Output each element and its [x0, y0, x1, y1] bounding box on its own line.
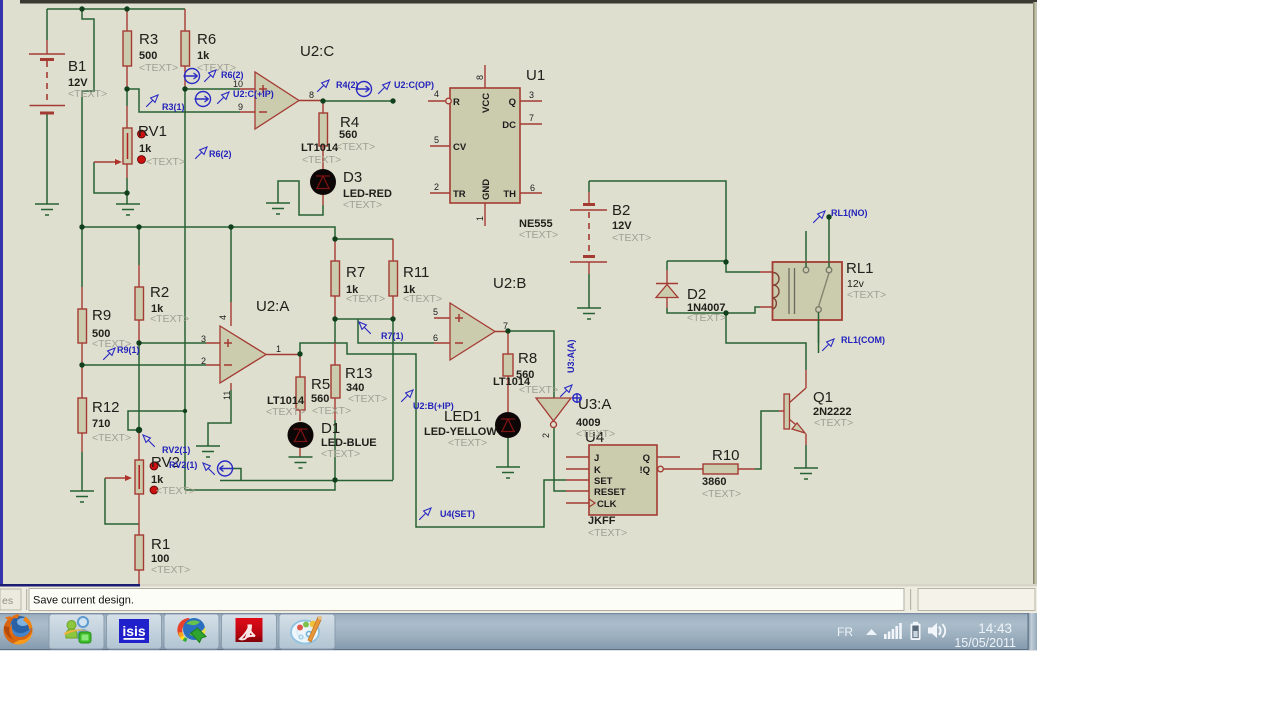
svg-text:15/05/2011: 15/05/2011 [954, 636, 1016, 650]
svg-text:R2: R2 [150, 284, 169, 301]
svg-text:U2:C(OP): U2:C(OP) [394, 80, 434, 90]
svg-text:R1: R1 [151, 536, 170, 553]
svg-text:RV1: RV1 [138, 123, 167, 140]
svg-text:SET: SET [594, 476, 613, 487]
svg-text:<TEXT>: <TEXT> [266, 406, 305, 418]
svg-text:Q1: Q1 [813, 389, 833, 406]
svg-text:<TEXT>: <TEXT> [92, 432, 131, 444]
svg-text:R5: R5 [311, 376, 330, 393]
svg-text:560: 560 [339, 129, 357, 141]
svg-text:D3: D3 [343, 169, 362, 186]
svg-text:isis: isis [122, 623, 146, 639]
svg-text:TR: TR [453, 189, 466, 200]
svg-text:2: 2 [434, 182, 439, 192]
svg-text:<TEXT>: <TEXT> [576, 428, 615, 440]
svg-text:1k: 1k [139, 143, 152, 155]
svg-text:U2:B: U2:B [493, 275, 526, 292]
svg-text:<TEXT>: <TEXT> [348, 393, 387, 405]
svg-text:Q: Q [643, 453, 650, 464]
svg-text:TH: TH [503, 189, 516, 200]
svg-text:12V: 12V [612, 220, 632, 232]
svg-text:10: 10 [233, 79, 243, 89]
svg-text:7: 7 [503, 321, 508, 331]
svg-text:<TEXT>: <TEXT> [346, 293, 385, 305]
svg-text:R7: R7 [346, 264, 365, 281]
svg-text:<TEXT>: <TEXT> [139, 62, 178, 74]
svg-text:<TEXT>: <TEXT> [150, 313, 189, 325]
svg-text:11: 11 [222, 391, 232, 400]
svg-text:1: 1 [475, 216, 485, 221]
svg-text:K: K [594, 465, 601, 476]
svg-text:R12: R12 [92, 399, 120, 416]
svg-text:R13: R13 [345, 365, 373, 382]
svg-text:14:43: 14:43 [978, 621, 1012, 636]
svg-text:3: 3 [529, 90, 534, 100]
svg-text:U3:A(A): U3:A(A) [566, 340, 576, 374]
svg-text:U3:A: U3:A [578, 396, 611, 413]
svg-text:LT1014: LT1014 [301, 142, 339, 154]
svg-text:6: 6 [530, 183, 535, 193]
svg-text:CV: CV [453, 142, 467, 153]
svg-text:R11: R11 [403, 264, 429, 281]
svg-text:R6(2): R6(2) [221, 70, 244, 80]
svg-text:R: R [453, 97, 460, 108]
svg-text:R9: R9 [92, 307, 111, 324]
svg-text:<TEXT>: <TEXT> [702, 488, 741, 500]
svg-text:R4(2): R4(2) [336, 80, 359, 90]
svg-text:2: 2 [201, 356, 206, 366]
svg-text:<TEXT>: <TEXT> [151, 564, 190, 576]
svg-text:<TEXT>: <TEXT> [68, 88, 107, 100]
svg-text:<TEXT>: <TEXT> [448, 437, 487, 449]
svg-text:560: 560 [311, 393, 329, 405]
svg-text:!Q: !Q [639, 465, 650, 476]
svg-text:<TEXT>: <TEXT> [321, 448, 360, 460]
svg-text:1: 1 [276, 344, 281, 354]
svg-text:RL1(COM): RL1(COM) [841, 335, 885, 345]
svg-text:Q: Q [509, 97, 516, 108]
svg-text:3860: 3860 [702, 476, 726, 488]
svg-text:4: 4 [434, 89, 439, 99]
svg-text:RV2(1): RV2(1) [162, 445, 190, 455]
svg-text:<TEXT>: <TEXT> [847, 289, 886, 301]
svg-text:710: 710 [92, 418, 110, 430]
svg-text:R7(1): R7(1) [381, 331, 404, 341]
svg-text:<TEXT>: <TEXT> [336, 141, 375, 153]
svg-text:<TEXT>: <TEXT> [519, 384, 558, 396]
svg-text:<TEXT>: <TEXT> [312, 405, 351, 417]
svg-text:J: J [594, 453, 599, 464]
svg-text:U2:C(+IP): U2:C(+IP) [233, 89, 274, 99]
svg-text:9: 9 [238, 102, 243, 112]
svg-text:<TEXT>: <TEXT> [343, 199, 382, 211]
svg-text:R8: R8 [518, 350, 537, 367]
svg-text:R6(2): R6(2) [209, 149, 232, 159]
svg-text:RESET: RESET [594, 487, 626, 498]
svg-text:VCC: VCC [481, 93, 492, 113]
svg-text:U2:B(+IP): U2:B(+IP) [413, 401, 454, 411]
svg-text:8: 8 [475, 75, 485, 80]
svg-text:<TEXT>: <TEXT> [519, 229, 558, 241]
svg-text:<TEXT>: <TEXT> [156, 485, 195, 497]
svg-text:2: 2 [541, 433, 551, 438]
svg-text:8: 8 [309, 90, 314, 100]
svg-text:R3(1): R3(1) [162, 102, 185, 112]
svg-text:U4(SET): U4(SET) [440, 509, 475, 519]
svg-text:5: 5 [433, 307, 438, 317]
svg-text:4: 4 [218, 315, 228, 320]
svg-text:5: 5 [434, 135, 439, 145]
svg-text:GND: GND [481, 179, 492, 200]
svg-text:U2:A: U2:A [256, 298, 289, 315]
svg-text:RL1(NO): RL1(NO) [831, 208, 868, 218]
svg-text:FR: FR [837, 625, 853, 639]
svg-text:JKFF: JKFF [588, 515, 616, 527]
svg-text:3: 3 [201, 334, 206, 344]
svg-text:<TEXT>: <TEXT> [687, 312, 726, 324]
svg-text:CLK: CLK [597, 499, 617, 510]
svg-text:U2:C: U2:C [300, 43, 334, 60]
svg-text:<TEXT>: <TEXT> [612, 232, 651, 244]
svg-text:RV2(1): RV2(1) [169, 460, 197, 470]
svg-text:6: 6 [433, 333, 438, 343]
svg-text:DC: DC [502, 120, 516, 131]
svg-text:D2: D2 [687, 286, 706, 303]
svg-text:R10: R10 [712, 447, 740, 464]
svg-text:Save current design.: Save current design. [33, 595, 134, 607]
svg-text:B1: B1 [68, 58, 86, 75]
svg-text:R9(1): R9(1) [117, 345, 140, 355]
svg-text:<TEXT>: <TEXT> [146, 156, 185, 168]
svg-text:1k: 1k [197, 50, 210, 62]
svg-text:R6: R6 [197, 31, 216, 48]
svg-text:<TEXT>: <TEXT> [302, 154, 341, 166]
svg-text:RL1: RL1 [846, 260, 874, 277]
svg-text:500: 500 [139, 50, 157, 62]
svg-text:B2: B2 [612, 202, 630, 219]
svg-text:<TEXT>: <TEXT> [588, 527, 627, 539]
svg-text:<TEXT>: <TEXT> [814, 417, 853, 429]
svg-text:<TEXT>: <TEXT> [403, 293, 442, 305]
svg-text:D1: D1 [321, 420, 340, 437]
svg-text:7: 7 [529, 113, 534, 123]
svg-text:U1: U1 [526, 67, 545, 84]
svg-text:R3: R3 [139, 31, 158, 48]
svg-text:es: es [2, 595, 13, 607]
